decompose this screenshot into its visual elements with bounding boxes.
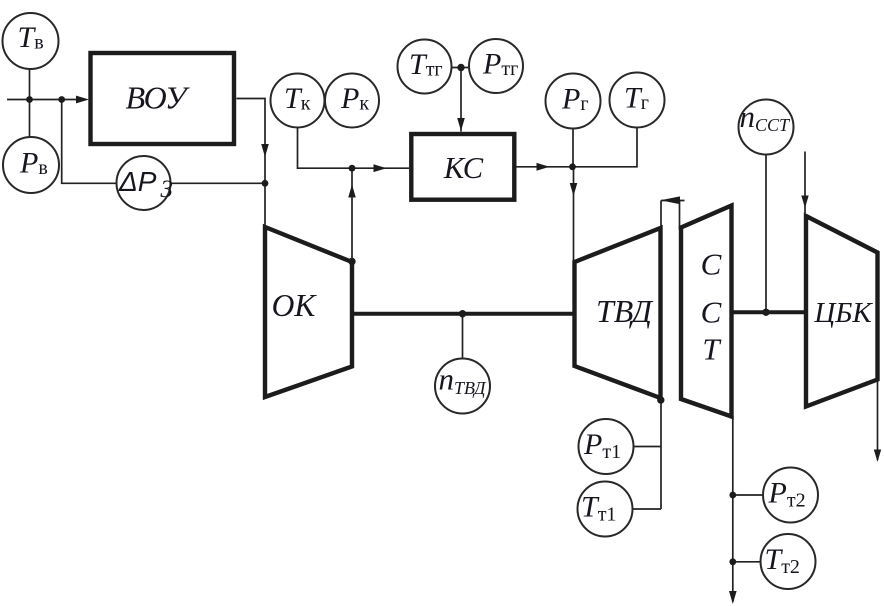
sensor circle Pt1 bbox=[579, 419, 634, 474]
wire Ttg-Ptg stub bbox=[450, 67, 471, 69]
svg-text:ОК: ОК bbox=[272, 288, 318, 323]
sensor circle dPz bbox=[117, 156, 171, 210]
wire Pg junction down to TVD inlet bbox=[573, 167, 575, 262]
arrow interturbine duct left bbox=[661, 196, 681, 204]
turbine TVD bbox=[575, 228, 661, 398]
wire feedback to dP left bbox=[62, 100, 117, 184]
wire Pt2 stub bbox=[733, 494, 764, 496]
sensor circle Tk bbox=[271, 74, 325, 128]
node dot inlet tap dP bbox=[58, 96, 65, 103]
wire Pt1 stub bbox=[633, 446, 661, 448]
wire interturbine duct right bbox=[679, 201, 681, 231]
wire Ttg junction down into KS bbox=[460, 68, 462, 132]
box KS (combustion chamber) bbox=[411, 134, 514, 200]
node dot dP junction bbox=[262, 180, 269, 187]
wire OK outlet up to Pk junction bbox=[351, 168, 353, 260]
wire VOU outlet down to OK bbox=[237, 99, 266, 226]
arrow CBK inlet down bbox=[801, 196, 808, 209]
sensor circle Pg bbox=[546, 74, 601, 129]
sensor circle Pv bbox=[3, 137, 59, 193]
arrow OK outlet up bbox=[348, 185, 356, 198]
turbine SST bbox=[681, 206, 732, 417]
compressor CBK bbox=[806, 216, 878, 407]
svg-text:ЦБК: ЦБК bbox=[813, 297, 873, 329]
node dot inlet tap Tv/Pv bbox=[26, 96, 33, 103]
svg-text:КС: КС bbox=[443, 151, 484, 185]
arrow CBK outlet down bbox=[874, 450, 881, 463]
wire Tv-Pv stem bbox=[29, 69, 31, 138]
node dot OK top-right bbox=[348, 258, 355, 265]
sensor circle Pk bbox=[325, 74, 379, 128]
wire Tt1 stub bbox=[632, 508, 661, 510]
svg-text:С: С bbox=[701, 294, 722, 329]
box VOU (air cleaning unit) bbox=[91, 53, 235, 144]
arrow Ttg down into KS bbox=[457, 118, 465, 131]
arrow KS outlet right bbox=[537, 163, 550, 171]
shaft TVD-OK bbox=[352, 312, 575, 316]
wire KS outlet to Pg junction bbox=[517, 166, 573, 168]
sensor circle Ttg bbox=[398, 40, 452, 94]
node dot Pt2 tap bbox=[729, 492, 736, 499]
wire interturbine duct top bar bbox=[661, 200, 685, 202]
sensor circle Pt2 bbox=[763, 468, 818, 523]
wire nTVD stem from shaft bbox=[462, 314, 464, 359]
sensor circle Tt1 bbox=[578, 482, 633, 537]
wire CBK air inlet bbox=[804, 152, 806, 214]
sensor circle nTVD bbox=[435, 359, 490, 414]
sensor circle Tt2 bbox=[761, 534, 816, 589]
wire nSST stem down to shaft bbox=[765, 155, 767, 313]
svg-text:ВОУ: ВОУ bbox=[126, 80, 190, 116]
node dot Ttg-Ptg junction bbox=[457, 64, 464, 71]
arrow VOU outlet down bbox=[261, 144, 269, 157]
wire dP right to junction bbox=[171, 182, 266, 184]
node dot Pk junction bbox=[349, 165, 356, 172]
node dot Pg junction bbox=[569, 163, 576, 170]
sensor circle Tg bbox=[610, 73, 665, 128]
wire junction to KS inlet bbox=[352, 167, 409, 169]
wire Tk stem bbox=[298, 128, 353, 168]
svg-text:Т: Т bbox=[702, 332, 722, 367]
sensor circle nSST bbox=[739, 100, 794, 155]
wire air inlet bbox=[7, 99, 86, 101]
compressor OK bbox=[265, 227, 352, 397]
wire CBK outlet down bbox=[877, 380, 879, 460]
arrow into KS bbox=[374, 164, 387, 172]
node dot shaft nSST tap bbox=[762, 309, 769, 316]
node dot shaft nTVD tap bbox=[459, 310, 466, 317]
node dot TVD bottom-right bbox=[657, 396, 664, 403]
wire SST exhaust down bbox=[732, 416, 734, 602]
arrow exhaust bottom down bbox=[729, 591, 737, 604]
sensor circle Ptg bbox=[469, 39, 523, 93]
wire Pg stem bbox=[572, 129, 574, 167]
node dot Tt2 tap bbox=[729, 558, 736, 565]
arrow down to TVD bbox=[570, 183, 578, 196]
wire interturbine duct left bbox=[660, 201, 662, 510]
wire Tg stem bbox=[573, 128, 637, 167]
svg-text:С: С bbox=[701, 247, 722, 282]
arrow into VOU bbox=[76, 96, 89, 104]
wire Tt2 stub bbox=[733, 561, 761, 563]
sensor circle Tv bbox=[3, 13, 59, 69]
shaft SST-CBK bbox=[732, 310, 807, 314]
svg-text:ТВД: ТВД bbox=[596, 293, 654, 329]
